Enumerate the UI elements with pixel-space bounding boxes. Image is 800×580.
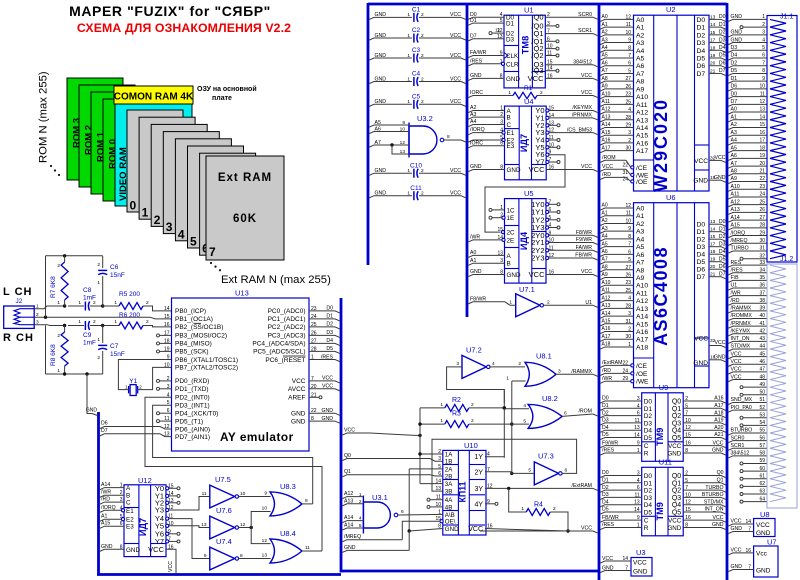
svg-text:C: C [507, 122, 512, 129]
svg-text:D7: D7 [697, 71, 706, 78]
svg-text:22: 22 [759, 176, 765, 182]
svg-text:A18: A18 [714, 410, 723, 416]
svg-text:/RES: /RES [321, 354, 334, 360]
svg-text:14: 14 [745, 519, 751, 525]
svg-text:A15: A15 [636, 133, 648, 140]
svg-text:PB4_(MISO): PB4_(MISO) [175, 341, 212, 348]
svg-text:VCC: VCC [713, 440, 724, 446]
svg-text:6: 6 [564, 411, 567, 417]
svg-text:D6: D6 [719, 264, 726, 270]
svg-text:U9: U9 [659, 383, 669, 392]
svg-text:A7: A7 [602, 257, 608, 263]
svg-text:A11: A11 [602, 288, 611, 294]
svg-text:A1: A1 [470, 258, 476, 264]
wire GND net to U10 2A [408, 469, 443, 533]
wire U8.2 pin5 [512, 418, 529, 424]
svg-text:IORC: IORC [470, 140, 483, 146]
svg-text:A14: A14 [636, 314, 648, 321]
svg-text:13: 13 [262, 553, 268, 559]
svg-text:D3: D3 [644, 495, 653, 502]
svg-text:2: 2 [421, 33, 424, 39]
bus vertical x341 (AY right) [340, 298, 343, 573]
capacitor C1 [369, 7, 466, 22]
IC U6 A pin names [625, 203, 648, 351]
IC U5 right pin names [529, 199, 555, 279]
svg-text:34: 34 [759, 267, 765, 273]
svg-text:BTURBO: BTURBO [731, 428, 753, 434]
svg-text:СХЕМА ДЛЯ ОЗНАКОМЛЕНИЯ V2.2: СХЕМА ДЛЯ ОЗНАКОМЛЕНИЯ V2.2 [77, 21, 291, 35]
capacitor C8 [78, 287, 96, 311]
svg-text:Q2: Q2 [672, 488, 681, 495]
svg-text:12: 12 [495, 28, 501, 33]
svg-text:A10: A10 [636, 283, 648, 290]
memory card Ext RAM bank 0 [127, 110, 183, 213]
svg-text:Q3: Q3 [672, 495, 681, 502]
svg-text:A17: A17 [602, 334, 611, 340]
svg-text:GND: GND [470, 73, 482, 79]
svg-text:A16: A16 [602, 326, 611, 332]
svg-text:63: 63 [759, 489, 765, 495]
svg-text:A7: A7 [636, 71, 645, 78]
net A1 to U12 E2 [100, 514, 125, 522]
svg-text:/MREQ: /MREQ [731, 238, 748, 244]
net A6 to U3.2 [369, 126, 409, 133]
svg-text:VCC: VCC [602, 556, 613, 562]
svg-text:STD/MX: STD/MX [731, 344, 751, 350]
svg-text:2: 2 [421, 168, 424, 174]
svg-text:GND: GND [602, 565, 614, 571]
svg-text:VCC: VCC [668, 443, 682, 450]
pin U5 1C stub [489, 208, 505, 211]
inverter U7.6 [201, 506, 245, 539]
net /RAMMX from U8.1 [556, 369, 598, 377]
svg-text:VCC: VCC [450, 53, 461, 59]
pin U10 4B nc [427, 505, 443, 508]
net F9/WR from U5 2Y1 [546, 237, 598, 245]
svg-text:35: 35 [759, 275, 765, 281]
svg-text:D1: D1 [506, 21, 515, 28]
net /MREQ to U10 OE [342, 521, 440, 542]
svg-text:VCC: VCC [450, 76, 461, 82]
svg-text:9: 9 [264, 491, 267, 497]
svg-text:2: 2 [146, 319, 149, 325]
svg-text:AVCC: AVCC [288, 386, 306, 393]
svg-text:VCC: VCC [715, 340, 726, 346]
svg-text:2: 2 [421, 76, 424, 82]
svg-text:3: 3 [762, 30, 765, 36]
svg-text:J1.1: J1.1 [780, 14, 793, 21]
net VCC bottom from bus599 [480, 526, 598, 534]
svg-text:D7: D7 [731, 99, 738, 105]
svg-text:A6: A6 [375, 126, 381, 132]
svg-text:GND: GND [101, 544, 113, 550]
pin U12 Y1 nc [166, 494, 180, 497]
svg-text:A15: A15 [602, 130, 611, 136]
svg-text:1: 1 [407, 168, 410, 174]
svg-text:20: 20 [759, 161, 765, 167]
svg-text:A6: A6 [636, 252, 645, 259]
svg-text:D3: D3 [506, 36, 515, 43]
svg-text:2: 2 [471, 402, 474, 408]
svg-text:GND: GND [375, 99, 387, 105]
svg-text:D5: D5 [731, 68, 738, 74]
IC U8 power box [728, 510, 775, 537]
net A15 to U12 E3 [100, 521, 125, 529]
wire U12 Y4 to U7.4 [166, 517, 210, 559]
nets into U11 [600, 470, 642, 530]
svg-text:A17: A17 [636, 148, 648, 155]
svg-text:U2: U2 [666, 5, 676, 14]
svg-text:2: 2 [57, 333, 60, 339]
svg-text:/ROMMX: /ROMMX [731, 313, 753, 319]
net SCR0 from U1 Q0 [545, 12, 598, 20]
svg-text:/Q2: /Q2 [531, 51, 543, 60]
svg-text:A0: A0 [602, 14, 608, 20]
svg-text:D0: D0 [719, 219, 726, 225]
svg-text:D2: D2 [719, 234, 726, 240]
svg-text:SCR1: SCR1 [578, 28, 592, 34]
svg-text:GND: GND [731, 37, 743, 43]
svg-text:1E: 1E [507, 215, 515, 222]
svg-text:Q0: Q0 [672, 473, 681, 480]
svg-text:GND: GND [731, 526, 743, 532]
svg-text:A17: A17 [636, 337, 648, 344]
svg-text:4: 4 [762, 37, 765, 43]
nets into U9 [600, 396, 642, 456]
svg-text:3A: 3A [445, 481, 453, 488]
svg-text:D2: D2 [731, 60, 738, 66]
svg-text:0: 0 [130, 199, 137, 213]
svg-text:29: 29 [759, 230, 765, 236]
svg-text:61: 61 [759, 473, 765, 479]
wire U8.4 output [302, 545, 322, 551]
svg-text:6: 6 [401, 509, 404, 515]
svg-text:16: 16 [759, 130, 765, 136]
svg-text:C5: C5 [412, 94, 421, 101]
svg-text:2: 2 [93, 300, 96, 306]
svg-text:D6: D6 [697, 267, 706, 274]
svg-text:52: 52 [759, 405, 765, 411]
svg-text:36: 36 [759, 283, 765, 289]
memory card Ext RAM 60K [206, 156, 284, 260]
svg-text:A14: A14 [602, 122, 611, 128]
svg-text:A12: A12 [602, 295, 611, 301]
svg-text:D0: D0 [602, 470, 609, 476]
svg-text:Q3: Q3 [672, 420, 681, 427]
memory card Ext RAM bank 4 [175, 139, 231, 242]
svg-text:1: 1 [407, 191, 410, 197]
svg-text:D7: D7 [719, 68, 726, 74]
svg-text:37: 37 [759, 290, 765, 296]
net U3.2-out to U4 E2 [468, 138, 505, 142]
svg-text:4A: 4A [445, 497, 453, 504]
svg-text:18: 18 [759, 145, 765, 151]
wire U3.1 out to U10 A-B [398, 509, 443, 515]
svg-text:A5: A5 [602, 241, 608, 247]
svg-text:R5 200: R5 200 [119, 291, 140, 298]
resistor R2 [420, 397, 506, 411]
svg-text:D4: D4 [602, 499, 609, 505]
net D0 to U1 [468, 12, 504, 20]
svg-text:A3: A3 [470, 112, 476, 118]
wire to GND [87, 374, 92, 414]
svg-text:PC1_(ADC1): PC1_(ADC1) [268, 316, 306, 323]
svg-text:D0: D0 [697, 17, 706, 24]
net IORC to U4 E3 [468, 140, 505, 148]
svg-text:24: 24 [759, 192, 765, 198]
svg-text:30: 30 [759, 238, 765, 244]
svg-text:7: 7 [209, 245, 216, 259]
pin U1 /Q3 nc [545, 69, 559, 72]
svg-text:13: 13 [435, 486, 441, 492]
svg-text:CLK: CLK [506, 53, 519, 60]
wire R2 net vertical [503, 390, 506, 458]
svg-text:VCC: VCC [581, 526, 592, 532]
svg-text:C3: C3 [412, 47, 421, 54]
svg-text:A1: A1 [602, 210, 608, 216]
svg-text:A7: A7 [375, 140, 381, 146]
svg-text:U8: U8 [760, 510, 770, 519]
svg-text:A14: A14 [602, 311, 611, 317]
svg-text:A9: A9 [636, 275, 645, 282]
svg-text:PC5_(ADC5/SCL): PC5_(ADC5/SCL) [253, 349, 305, 356]
pin U4 Y5 nc [546, 146, 560, 149]
svg-text:PD5_(T1): PD5_(T1) [175, 418, 203, 425]
bus vertical x98 (AY left) [97, 412, 100, 575]
svg-text:PB2_(SS/OC1B): PB2_(SS/OC1B) [175, 324, 223, 331]
svg-text:VCC: VCC [168, 561, 174, 572]
svg-text:D5: D5 [644, 510, 653, 517]
net A3 to U4 [468, 112, 505, 120]
svg-text:5: 5 [190, 235, 197, 249]
svg-text:41: 41 [759, 321, 765, 327]
pin U4 Y2 nc [546, 124, 560, 127]
IC U6 box [634, 193, 710, 388]
svg-text:D3: D3 [602, 418, 609, 424]
IC U10 left pin names [435, 449, 459, 533]
net /PRNMX from U4 Y1 [546, 113, 598, 121]
svg-text:A11: A11 [731, 192, 740, 198]
svg-text:A4: A4 [636, 236, 645, 243]
nets A0-A18 bus599 to U6 [600, 203, 634, 349]
pin U12 Y2 nc [166, 501, 180, 504]
IC U1 box [504, 6, 545, 88]
svg-text:U11: U11 [659, 457, 672, 466]
svg-text:38: 38 [759, 298, 765, 304]
svg-text:BTURBO: BTURBO [702, 492, 724, 498]
svg-text:U6: U6 [666, 193, 676, 202]
svg-text:PB7_(XTAL2/TOSC2): PB7_(XTAL2/TOSC2) [175, 365, 238, 372]
svg-text:D0: D0 [602, 396, 609, 402]
svg-text:U12: U12 [138, 476, 152, 485]
svg-text:A9: A9 [731, 176, 737, 182]
svg-text:ТМ8: ТМ8 [520, 36, 530, 54]
net A12 to U3.1 [342, 491, 363, 499]
net A14 to U12 A [100, 482, 125, 490]
svg-text:1: 1 [407, 12, 410, 18]
bus bottom middle horizontal [341, 570, 599, 573]
svg-text:40: 40 [759, 313, 765, 319]
svg-text:GND: GND [321, 408, 333, 414]
svg-text:/RD: /RD [731, 298, 740, 304]
wire U3.2 output to bus467 [444, 134, 466, 142]
svg-text:Q1: Q1 [672, 406, 681, 413]
svg-text:GND: GND [445, 526, 459, 533]
svg-text:A4: A4 [731, 138, 737, 144]
capacitor C7 [97, 326, 125, 375]
svg-text:A21: A21 [714, 432, 723, 438]
net VCC from U1 [545, 73, 598, 81]
svg-text:2: 2 [93, 319, 96, 325]
svg-text:GND: GND [470, 269, 482, 275]
svg-text:2Y: 2Y [474, 469, 483, 476]
net F8/WR from U5 2Y0 [546, 230, 598, 238]
capacitor C6 [97, 256, 125, 306]
svg-text:GND: GND [667, 525, 681, 532]
svg-text:2: 2 [146, 300, 149, 306]
inverter U7.5 [202, 475, 246, 508]
svg-text:D5: D5 [719, 53, 726, 59]
net A2 to U4 [468, 105, 505, 113]
svg-text:A19: A19 [714, 418, 723, 424]
svg-text:31: 31 [759, 246, 765, 252]
pin U1 /Q2 nc [545, 54, 559, 57]
svg-text:A16: A16 [636, 329, 648, 336]
svg-text:50: 50 [759, 390, 765, 396]
svg-text:11: 11 [305, 545, 310, 551]
svg-text:PD2_(INT0): PD2_(INT0) [175, 395, 210, 402]
svg-text:45: 45 [759, 351, 765, 357]
svg-text:D2: D2 [644, 488, 653, 495]
svg-text:Q0: Q0 [533, 13, 543, 22]
svg-text:A12: A12 [731, 199, 740, 205]
svg-text:A8: A8 [636, 79, 645, 86]
svg-text:2: 2 [421, 99, 424, 105]
svg-text:VCC: VCC [581, 164, 592, 170]
svg-text:2: 2 [421, 53, 424, 59]
svg-text:U7.5: U7.5 [215, 475, 231, 484]
svg-text:VCC: VCC [529, 165, 545, 174]
svg-text:F9/WR: F9/WR [602, 440, 618, 446]
connector J1.1 [767, 14, 797, 263]
svg-text:A4: A4 [636, 48, 645, 55]
net VCC to U2 WE [600, 164, 631, 175]
svg-text:10: 10 [262, 506, 268, 512]
svg-text:16: 16 [164, 322, 170, 328]
svg-text:GND: GND [693, 360, 708, 367]
net 384-512 from U1 Q3 [545, 59, 598, 67]
capacitor C4 [369, 71, 466, 86]
svg-text:60K: 60K [233, 213, 257, 225]
svg-text:7: 7 [748, 565, 751, 571]
label ROM N (max 255) [38, 71, 50, 163]
svg-text:14: 14 [164, 306, 170, 312]
svg-text:D7: D7 [470, 34, 477, 40]
svg-text:VCC: VCC [322, 384, 333, 390]
svg-text:33: 33 [759, 260, 765, 266]
svg-text:C: C [644, 518, 649, 525]
svg-text:23: 23 [759, 184, 765, 190]
svg-text:SND_MX: SND_MX [731, 397, 753, 403]
net A14 to U3.1 pin5 [342, 523, 363, 531]
svg-text:A10: A10 [636, 94, 648, 101]
svg-text:AY emulator: AY emulator [220, 430, 294, 444]
label Ext RAM N (max 255) [221, 274, 331, 286]
svg-text:VCC: VCC [581, 90, 592, 96]
net /RES to U1 CLR [468, 58, 505, 66]
svg-text:/KEYMX: /KEYMX [731, 328, 751, 334]
svg-text:21: 21 [759, 169, 765, 175]
svg-text:Q0: Q0 [344, 453, 351, 459]
svg-text:ROM N (max 255): ROM N (max 255) [38, 71, 50, 163]
svg-text:GND: GND [756, 568, 771, 575]
svg-text:1: 1 [521, 506, 524, 512]
pin U10 4A nc [427, 498, 443, 501]
net GND to U1 [468, 73, 504, 81]
svg-text:J2: J2 [16, 298, 23, 305]
svg-text:Q1: Q1 [672, 480, 681, 487]
net A14 to U3.1 pin4 [342, 515, 363, 523]
svg-text:PC3_(ADC3): PC3_(ADC3) [268, 333, 306, 340]
svg-text:42: 42 [759, 328, 765, 334]
svg-text:/IORQ: /IORQ [470, 127, 485, 133]
svg-text:PC6_(RESET: PC6_(RESET [265, 357, 305, 364]
IC U6 D pin names [697, 219, 716, 281]
IC U4 left pin names [500, 106, 521, 175]
svg-text:4: 4 [178, 227, 185, 241]
svg-text:VCC: VCC [731, 351, 742, 357]
svg-text:1: 1 [407, 76, 410, 82]
svg-text:47: 47 [759, 367, 765, 373]
svg-text:GND: GND [507, 167, 521, 174]
svg-text:W29C020: W29C020 [651, 98, 671, 192]
wire U8.2 pin4 [504, 403, 529, 409]
svg-text:C8: C8 [83, 287, 92, 294]
svg-text:GND: GND [375, 53, 387, 59]
svg-text:9: 9 [167, 355, 170, 361]
svg-text:A5: A5 [636, 244, 645, 251]
svg-text:58: 58 [759, 451, 765, 457]
net A5 to U3.2 [369, 120, 409, 127]
wire U4 Y6 to U5 2C [485, 153, 565, 234]
svg-text:КП11: КП11 [457, 481, 467, 502]
net GND to U12 [100, 544, 125, 552]
svg-text:R3: R3 [452, 411, 461, 418]
svg-text:PB3_(MOSI/OC2): PB3_(MOSI/OC2) [175, 333, 227, 340]
svg-text:U7.4: U7.4 [216, 537, 232, 546]
svg-text:VCC: VCC [322, 376, 333, 382]
svg-text:R1: R1 [524, 85, 533, 92]
svg-text:D2: D2 [697, 32, 706, 39]
capacitor C11 [369, 185, 466, 200]
svg-text:A2: A2 [731, 122, 737, 128]
pin U1 /Q0 nc [545, 24, 559, 27]
svg-text:D0: D0 [731, 91, 738, 97]
wire U12 Y5 to U7.6 [166, 524, 210, 527]
svg-text:1: 1 [97, 337, 100, 343]
wire PD3 INT1 loop [153, 405, 313, 504]
wire U12 VCC down [166, 549, 176, 573]
svg-text:/CE: /CE [636, 165, 648, 172]
IC U13 left pins [157, 306, 238, 441]
svg-text:R2: R2 [452, 397, 461, 404]
svg-text:D4: D4 [602, 425, 609, 431]
svg-text:E3: E3 [126, 524, 134, 531]
svg-text:D4: D4 [697, 48, 706, 55]
svg-text:A15: A15 [636, 321, 648, 328]
svg-text:A4: A4 [602, 45, 608, 51]
svg-text:A2: A2 [636, 32, 645, 39]
